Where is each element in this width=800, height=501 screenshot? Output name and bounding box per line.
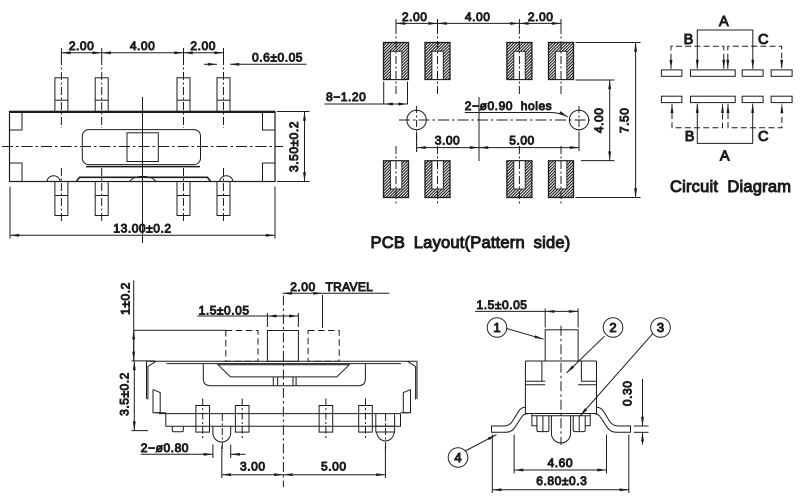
pad 2 top <box>425 43 450 80</box>
bracket left wing <box>492 407 529 432</box>
terminal bar 3 bottom <box>742 96 763 102</box>
small arc left <box>47 176 60 182</box>
svg-text:2.00: 2.00 <box>528 10 554 24</box>
left foot <box>172 426 183 432</box>
dim 1±0.2 knob height <box>119 280 227 361</box>
svg-text:C: C <box>758 129 768 145</box>
hole left <box>407 110 426 129</box>
svg-text:2−ø0.80: 2−ø0.80 <box>141 441 189 455</box>
pad column centerlines <box>396 26 561 205</box>
svg-text:2.00: 2.00 <box>290 280 316 294</box>
rect pin centerlines <box>203 399 386 453</box>
dim 4.00 pcb (pads 2-3) <box>438 10 520 28</box>
slot opening outline <box>203 364 365 385</box>
svg-text:13.00±0.2: 13.00±0.2 <box>113 222 171 236</box>
dim 7.50 vertical pcb <box>576 43 641 198</box>
net B bottom (dashed bracket) <box>672 104 723 128</box>
lower body <box>155 413 409 427</box>
hole vertical centerlines <box>416 106 418 152</box>
dim 3.5±0.2 body height <box>117 361 148 431</box>
right side tab <box>403 390 410 413</box>
line under slot <box>86 166 200 168</box>
rect pin c <box>319 406 333 433</box>
terminal bar 2 top (common) <box>691 70 736 76</box>
net A top (solid bracket) <box>697 30 753 69</box>
svg-text:2: 2 <box>609 320 616 335</box>
stem <box>545 330 578 361</box>
body cover inner line <box>167 363 402 365</box>
center bump arc <box>130 176 157 182</box>
net C bottom (dashed bracket) <box>728 104 782 128</box>
dim 1.5±0.05 stem <box>475 298 578 327</box>
dim 2.00 (pins 1-2) <box>61 39 101 58</box>
switch body outline <box>10 112 276 182</box>
section centerline <box>560 326 562 445</box>
knob base in slot <box>273 377 296 386</box>
left terminal stub <box>532 414 549 432</box>
svg-text:4.00: 4.00 <box>130 39 156 53</box>
holes centerline horizontal <box>399 119 590 121</box>
pin 3 top <box>177 78 190 112</box>
corner notch bottom-right <box>263 163 276 182</box>
rect pin a <box>196 406 210 433</box>
net C top (dashed bracket) <box>728 46 782 69</box>
svg-text:B: B <box>684 32 694 48</box>
body top edge <box>147 360 418 362</box>
pad 5 bottom <box>384 161 409 198</box>
terminal bar 4 bottom <box>771 96 792 102</box>
svg-text:1.5±0.05: 1.5±0.05 <box>199 304 250 318</box>
svg-text:7.50: 7.50 <box>618 108 632 134</box>
pad 6 bottom <box>425 161 450 198</box>
terminal bar 3 top <box>742 70 763 76</box>
bracket right wing <box>594 407 631 432</box>
dim 0.6±0.05 pin width <box>204 51 307 65</box>
balloon 4 (bracket foot) <box>448 435 496 468</box>
pin centerlines bottom <box>61 168 223 222</box>
pin 2 top <box>95 78 108 112</box>
bracket under-body line <box>532 415 590 417</box>
terminal bar 1 top <box>661 70 682 76</box>
dim 2.00 pcb (pads 1-2) <box>396 10 438 28</box>
pin centerlines top <box>61 57 223 128</box>
small arc right <box>220 176 233 182</box>
pcb center extension line <box>478 97 480 161</box>
pin 1 top <box>55 78 68 112</box>
pin 7 bottom <box>177 182 190 216</box>
right shoulder <box>578 361 596 385</box>
bottom contact plate <box>76 177 211 182</box>
round pin section <box>551 416 570 443</box>
slider slot <box>82 130 200 165</box>
pin 8 bottom <box>217 182 230 216</box>
balloon 2 (slider) <box>567 318 623 373</box>
knob (center position) <box>267 331 298 362</box>
left side tab <box>153 390 160 413</box>
terminal bar 2 bottom (common) <box>691 96 736 102</box>
dim 1.5±0.05 knob width <box>197 304 298 327</box>
pad 8 bottom <box>549 161 574 198</box>
body block <box>525 361 596 414</box>
corner notch top-right <box>263 112 276 131</box>
dim 3.00 front <box>222 446 284 478</box>
pad 1 top (hatched) <box>384 43 409 80</box>
net A bottom (solid bracket) <box>697 104 752 144</box>
svg-text:8−1.20: 8−1.20 <box>326 90 366 104</box>
svg-text:0.30: 0.30 <box>621 381 635 407</box>
pin 5 bottom <box>55 182 68 216</box>
dim 13.00±0.2 overall width <box>10 187 275 239</box>
recess trapezoid <box>218 365 349 377</box>
svg-text:0.6±0.05: 0.6±0.05 <box>252 51 303 65</box>
svg-text:B: B <box>685 129 695 145</box>
dim 3.50±0.2 body height <box>277 112 310 182</box>
horizontal centerline <box>2 146 283 148</box>
terminal bar 4 top <box>771 70 792 76</box>
right terminal stub <box>573 414 590 432</box>
svg-text:2.00: 2.00 <box>402 10 428 24</box>
dim 4.00 vertical pcb <box>576 80 615 161</box>
svg-text:3.50±0.2: 3.50±0.2 <box>287 121 301 172</box>
svg-text:6.80±0.3: 6.80±0.3 <box>536 474 587 488</box>
svg-text:4: 4 <box>454 450 461 465</box>
dim 3.00 pcb <box>417 132 479 151</box>
round pin right collar <box>376 414 395 432</box>
step line <box>159 413 401 415</box>
dim 2.00 pcb (pads 3-4) <box>519 10 561 28</box>
dim 0.30 foot thickness <box>621 379 649 445</box>
pad 7 bottom <box>507 161 532 198</box>
svg-text:4.60: 4.60 <box>548 456 574 470</box>
svg-text:4.00: 4.00 <box>592 108 606 134</box>
svg-text:3.00: 3.00 <box>435 134 461 148</box>
svg-text:C: C <box>758 32 768 48</box>
dim 4.00 (pins 2-3) <box>102 39 184 58</box>
vertical centerline <box>142 97 144 243</box>
dim 5.00 front <box>283 446 385 478</box>
knob right position (dashed) <box>308 331 339 362</box>
pad 4 top <box>549 43 574 80</box>
corner notch top-left <box>10 112 23 131</box>
hole right <box>569 110 588 129</box>
svg-text:2−ø0.90 holes: 2−ø0.90 holes <box>465 99 552 113</box>
dim 4.60 <box>514 435 606 474</box>
svg-text:1: 1 <box>493 320 500 335</box>
front view centerline <box>282 296 284 488</box>
svg-text:2.00: 2.00 <box>190 39 216 53</box>
round pin right <box>377 432 395 441</box>
svg-text:5.00: 5.00 <box>509 134 535 148</box>
svg-text:2.00: 2.00 <box>69 39 95 53</box>
svg-text:3.00: 3.00 <box>240 460 266 474</box>
balloon 3 (frame) <box>580 318 670 416</box>
balloon 1 (knob) <box>487 318 543 340</box>
svg-text:5.00: 5.00 <box>321 460 347 474</box>
corner notch bottom-left <box>10 163 23 182</box>
svg-text:A: A <box>719 14 729 30</box>
pin 4 top <box>217 78 230 112</box>
dim 8-1.20 pad width <box>324 82 407 105</box>
svg-text:3: 3 <box>657 320 664 335</box>
svg-text:1±0.2: 1±0.2 <box>119 282 133 315</box>
knob left position (dashed) <box>226 331 258 362</box>
dim 2.00 travel <box>283 280 390 328</box>
svg-text:Circuit Diagram: Circuit Diagram <box>670 178 791 196</box>
svg-text:3.5±0.2: 3.5±0.2 <box>117 372 131 416</box>
svg-text:4.00: 4.00 <box>465 10 491 24</box>
pin 6 bottom <box>95 182 108 216</box>
body right side <box>408 361 418 399</box>
round pin left <box>213 426 231 442</box>
dim 2-Ø0.80 round pins <box>141 441 246 458</box>
terminal bar 1 bottom <box>661 96 682 102</box>
dim 6.80±0.3 <box>492 435 629 494</box>
rect pin d <box>359 406 373 433</box>
svg-text:TRAVEL: TRAVEL <box>326 280 374 294</box>
svg-text:1.5±0.05: 1.5±0.05 <box>477 298 528 312</box>
label 2-Ø0.90 holes with leader <box>465 99 568 117</box>
slider knob square <box>127 133 158 162</box>
dim 5.00 pcb <box>479 132 579 151</box>
svg-text:PCB Layout(Pattern side): PCB Layout(Pattern side) <box>371 234 571 252</box>
net B top (dashed bracket) <box>671 46 724 69</box>
pad 3 top <box>507 43 532 80</box>
body left side <box>147 361 157 399</box>
left shoulder <box>525 361 545 385</box>
svg-text:A: A <box>720 149 730 165</box>
rect pin b <box>235 406 249 433</box>
dim 2.00 (pins 3-4) <box>184 39 224 58</box>
